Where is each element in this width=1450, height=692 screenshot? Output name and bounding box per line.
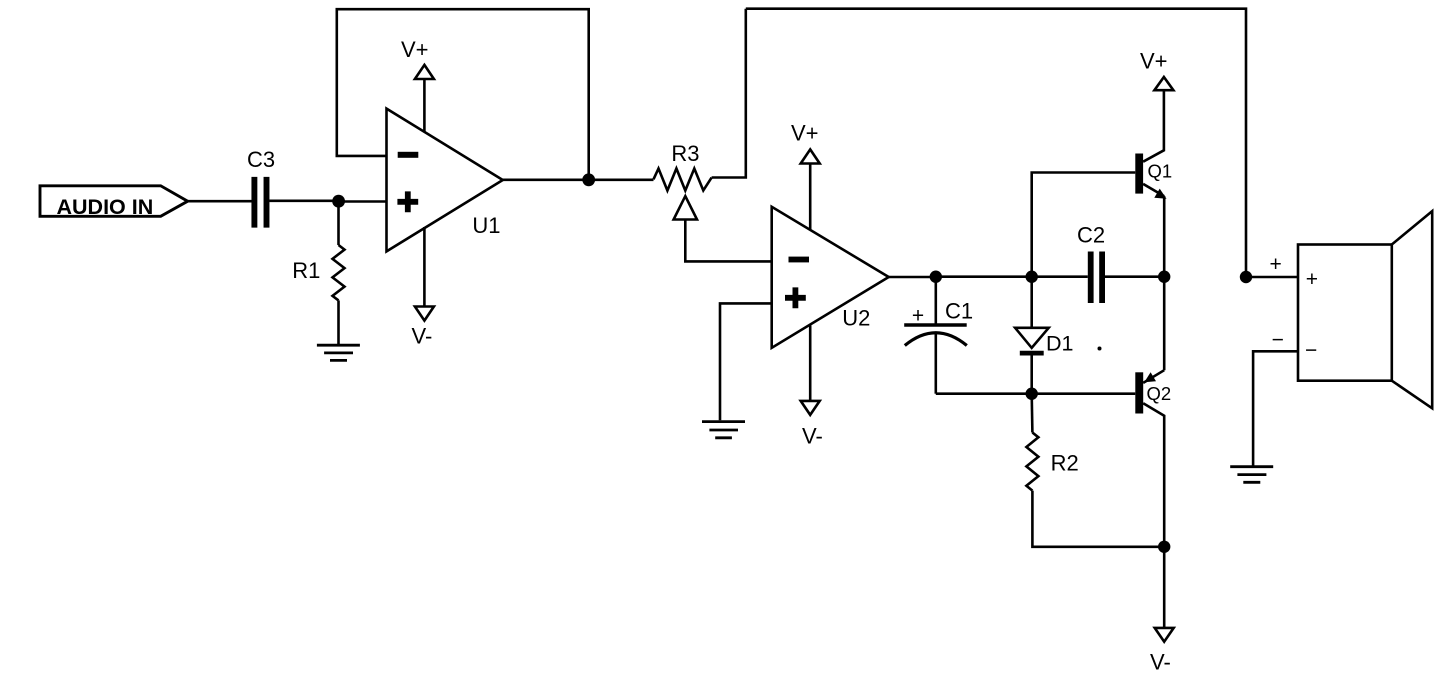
U1 V+ arrow	[415, 65, 434, 79]
node A junction dot	[332, 195, 345, 208]
U1 V+ stem	[423, 79, 426, 133]
svg-text:Q2: Q2	[1147, 383, 1172, 404]
wire node F to V-	[1163, 547, 1166, 628]
wire U1 output to R3	[503, 179, 654, 182]
svg-text:C3: C3	[247, 147, 275, 172]
U2 noninverting input wire to ground	[720, 303, 772, 420]
svg-text:V+: V+	[791, 121, 819, 146]
wire input to C3	[188, 200, 252, 203]
resistor R1	[333, 245, 345, 300]
capacitor C3	[251, 177, 257, 228]
node G junction dot	[1158, 271, 1170, 283]
ground (U2)	[702, 422, 745, 438]
wire node D up to Q1 base	[1032, 173, 1136, 277]
U1 V- arrow	[415, 307, 434, 321]
bottom V- arrow	[1155, 628, 1174, 642]
ground (speaker)	[1230, 467, 1273, 483]
AUDIO IN input flag	[40, 186, 188, 217]
U1 inverting input minus sign	[398, 152, 419, 158]
bottom rail wire C1 to node E	[936, 392, 1032, 395]
op-amp U1	[387, 109, 503, 252]
transistor Q2 base bar	[1135, 372, 1143, 413]
resistor R2	[1026, 433, 1038, 491]
op-amp U2	[772, 207, 889, 348]
wire node G down to Q2 emitter	[1163, 277, 1166, 371]
Q2 emitter arrowhead	[1144, 372, 1156, 382]
U2 V- arrow	[801, 401, 820, 415]
wire node A to U1 noninverting input	[339, 200, 387, 203]
wire node C down to C1	[934, 277, 937, 324]
svg-text:+: +	[912, 305, 924, 328]
wire C2 to node G	[1105, 275, 1164, 278]
svg-text:C2: C2	[1077, 223, 1105, 248]
svg-text:V-: V-	[1150, 650, 1171, 675]
svg-text:AUDIO IN: AUDIO IN	[57, 195, 154, 219]
wire D1 to node E	[1030, 355, 1033, 393]
wire node H to speaker plus	[1246, 276, 1298, 279]
R3 wiper wire to U2 inverting input	[685, 220, 771, 262]
svg-text:V+: V+	[401, 37, 429, 62]
wire R3 right to top feedback	[712, 9, 746, 178]
wire node E down to R2	[1030, 394, 1033, 433]
svg-text:U2: U2	[842, 306, 870, 331]
capacitor C2	[1088, 252, 1094, 304]
wire U2 output to node C	[889, 276, 936, 279]
ground (R1)	[317, 345, 360, 360]
Q2 emitter lead	[1143, 370, 1164, 383]
svg-text:R2: R2	[1051, 451, 1079, 476]
R3 wiper arrow	[674, 196, 697, 219]
U2 inverting input minus sign	[789, 257, 810, 263]
svg-text:−: −	[1305, 339, 1317, 362]
speaker LS1 body	[1298, 245, 1392, 381]
D1 cathode bar	[1020, 351, 1044, 356]
U1 noninverting input plus sign	[397, 191, 418, 212]
node C junction dot	[930, 271, 942, 283]
stray period mark	[1098, 347, 1102, 351]
Q1 emitter lead	[1143, 184, 1164, 196]
U2 V- stem	[809, 326, 812, 401]
svg-text:+: +	[1306, 268, 1318, 291]
capacitor C1 curved bottom plate	[905, 333, 967, 346]
speaker minus wire to ground	[1253, 351, 1298, 466]
Q1 collector lead	[1143, 90, 1164, 162]
Q1 emitter arrowhead	[1154, 189, 1166, 199]
node D junction dot	[1026, 271, 1038, 283]
speaker horn	[1392, 211, 1432, 408]
U1 V- stem	[423, 227, 426, 307]
svg-text:C1: C1	[945, 299, 973, 324]
capacitor C1 polarized top plate	[904, 323, 967, 327]
U2 V+ arrow	[801, 149, 820, 163]
node B junction dot	[582, 173, 595, 186]
svg-text:V+: V+	[1140, 49, 1168, 74]
svg-text:D1: D1	[1046, 331, 1073, 355]
wire R2 to node F	[1032, 491, 1164, 547]
U2 noninverting input plus sign	[785, 287, 806, 308]
wire node E to Q2 base	[1032, 392, 1136, 395]
wire node D to C2	[1032, 275, 1088, 278]
wire C1 to bottom rail	[934, 333, 937, 394]
Q1 V+ arrow	[1154, 77, 1173, 90]
diode D1	[1015, 328, 1049, 348]
top feedback wire	[746, 9, 1246, 277]
svg-text:R1: R1	[292, 258, 320, 283]
svg-text:U1: U1	[472, 213, 500, 238]
wire node D down to D1	[1030, 277, 1033, 328]
wire node C to node D	[936, 275, 1032, 278]
Q2 collector lead	[1143, 403, 1164, 547]
svg-text:+: +	[1270, 253, 1282, 276]
wire R1 to ground	[337, 300, 340, 345]
U2 V+ stem	[809, 164, 812, 231]
node E junction dot	[1026, 388, 1038, 400]
svg-text:−: −	[1272, 329, 1284, 352]
wire Q1 emitter to node G	[1163, 196, 1166, 276]
svg-text:V-: V-	[412, 324, 433, 349]
svg-text:Q1: Q1	[1148, 160, 1173, 181]
node F junction dot	[1158, 541, 1170, 553]
wire node A down to R1	[337, 201, 340, 245]
potentiometer R3	[654, 169, 712, 191]
wire C3 to node A	[269, 200, 338, 203]
transistor Q1 base bar	[1135, 154, 1143, 194]
node H junction dot	[1240, 271, 1252, 283]
svg-text:V-: V-	[802, 424, 823, 449]
svg-text:R3: R3	[671, 141, 699, 166]
U1 feedback wire output to inverting input	[337, 9, 589, 180]
